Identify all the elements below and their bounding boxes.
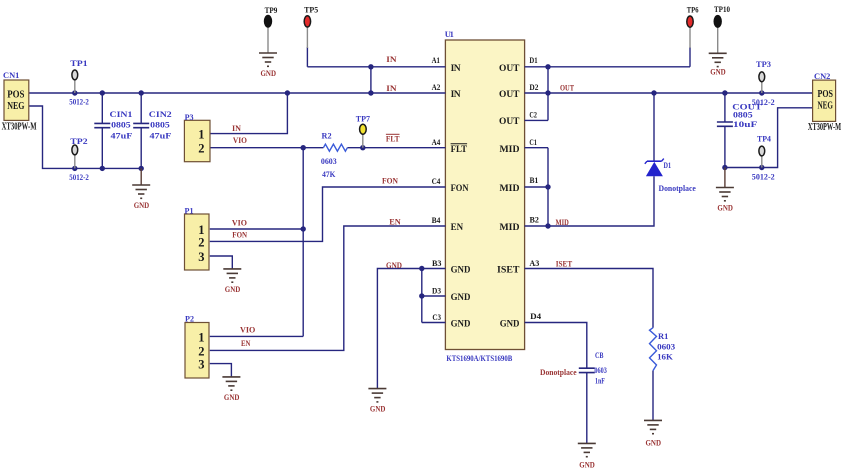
- wire COUT bottom leg: [724, 126, 726, 167]
- wire U1 pin C1 stub: [525, 147, 548, 149]
- node junction VIO at R2: [301, 145, 306, 150]
- svg-text:2: 2: [198, 236, 204, 250]
- svg-text:1nF: 1nF: [595, 376, 605, 386]
- svg-text:GND: GND: [451, 293, 471, 303]
- svg-text:GND: GND: [579, 459, 595, 469]
- node junction P3 IN riser: [285, 90, 290, 95]
- svg-text:CIN2: CIN2: [149, 109, 172, 119]
- resistor R1 0603 16K: [650, 328, 676, 371]
- svg-text:B3: B3: [432, 259, 442, 268]
- test point TP1: [69, 58, 89, 107]
- node junction GND bus at D3: [419, 293, 424, 298]
- test point TP5: [304, 5, 318, 49]
- wire R1 bottom to ground: [652, 371, 654, 421]
- svg-text:IN: IN: [386, 54, 397, 64]
- node junction CIN1 bottom: [100, 166, 105, 171]
- svg-text:FON: FON: [232, 229, 248, 239]
- connector P2: [185, 314, 209, 379]
- op-amp U1 main IC body KTS1690A/KTS1690B: [445, 29, 525, 363]
- svg-text:0603: 0603: [594, 365, 606, 375]
- node junction A1 tie top: [368, 64, 373, 69]
- wire VIO net P3 pin2 to R2: [210, 147, 324, 149]
- svg-text:VIO: VIO: [232, 218, 247, 228]
- svg-text:NEG: NEG: [7, 100, 25, 112]
- wire GND net U1 pin B3 to ground: [377, 269, 445, 389]
- wire U1 pin D3 stub: [422, 295, 446, 297]
- wire P1 pin3 to ground: [210, 256, 233, 269]
- wire main IN net CN1 to U1 pin A2: [29, 92, 446, 94]
- svg-text:U1: U1: [445, 29, 454, 39]
- svg-text:GND: GND: [261, 68, 277, 78]
- wire ISET net U1 pin A3 to R1: [525, 269, 653, 328]
- svg-text:0603: 0603: [321, 156, 337, 166]
- wire MID net U1 pin B2 to diode branch: [525, 176, 654, 226]
- svg-text:TP9: TP9: [265, 5, 278, 15]
- svg-text:EN: EN: [241, 338, 251, 348]
- svg-text:EN: EN: [389, 217, 401, 227]
- node junction TP4 on NEG return: [759, 165, 764, 170]
- wire CIN1 top leg: [101, 93, 103, 123]
- svg-text:P1: P1: [185, 205, 194, 215]
- svg-text:C2: C2: [529, 111, 537, 120]
- wire CN2 NEG return: [725, 108, 813, 168]
- node junction MID bus at B1: [545, 184, 550, 189]
- svg-text:GND: GND: [717, 203, 733, 213]
- svg-text:1: 1: [198, 330, 204, 344]
- svg-text:MID: MID: [500, 145, 520, 155]
- wire U1 pin B1 stub: [525, 186, 548, 188]
- svg-text:TP3: TP3: [756, 59, 771, 69]
- svg-text:C3: C3: [432, 313, 441, 322]
- svg-text:EN: EN: [451, 223, 464, 233]
- ground at P2 pin3: [222, 377, 240, 402]
- wire CB bottom to ground: [586, 373, 588, 444]
- svg-text:TP6: TP6: [687, 4, 699, 14]
- svg-text:XT30PW-M: XT30PW-M: [2, 122, 37, 133]
- node junction CIN1 top: [100, 90, 105, 95]
- svg-text:TP1: TP1: [70, 58, 87, 68]
- svg-text:OUT: OUT: [499, 117, 520, 127]
- test point TP9 with ground: [264, 5, 277, 53]
- wire MID bus right of U1 pins C1 B1 B2: [547, 148, 549, 226]
- svg-text:TP2: TP2: [70, 136, 87, 146]
- svg-text:3: 3: [198, 250, 204, 264]
- test point TP2: [69, 136, 89, 182]
- node junction MID bus at B2: [545, 223, 550, 228]
- wire P3 pin1 IN riser: [210, 93, 288, 134]
- wire P2 pin3 to ground: [210, 364, 232, 377]
- connector CN2 XT30PW-M: [808, 71, 842, 133]
- wire OUT net U1 pin D2 to CN2 POS: [525, 92, 813, 94]
- svg-text:A1: A1: [432, 56, 440, 65]
- svg-text:OUT: OUT: [499, 90, 520, 100]
- svg-text:GND: GND: [451, 319, 471, 329]
- svg-text:MID: MID: [500, 223, 520, 233]
- svg-text:47uF: 47uF: [111, 130, 133, 140]
- svg-text:47K: 47K: [322, 169, 336, 179]
- svg-text:FON: FON: [451, 184, 469, 194]
- node junction OUT bus at D2: [545, 90, 550, 95]
- ground at R1: [644, 420, 662, 447]
- ground at CB: [578, 443, 596, 469]
- resistor R2 0603 47K: [321, 130, 348, 179]
- svg-text:C1: C1: [529, 138, 537, 147]
- wire CIN2 top leg: [140, 93, 142, 123]
- svg-text:TP4: TP4: [757, 133, 772, 143]
- svg-text:FLT: FLT: [451, 145, 468, 155]
- connector P3: [184, 112, 210, 162]
- svg-text:P3: P3: [185, 112, 194, 122]
- ground at P1 pin3: [223, 269, 241, 294]
- svg-text:C4: C4: [432, 177, 441, 186]
- svg-text:5012-2: 5012-2: [752, 172, 775, 182]
- svg-text:FON: FON: [382, 176, 399, 186]
- svg-text:CN2: CN2: [814, 71, 830, 81]
- connector CN1 XT30PW-M: [2, 70, 37, 133]
- svg-text:R1: R1: [658, 331, 668, 341]
- wire CIN2 bottom leg: [140, 128, 142, 169]
- wire TP6 riser: [689, 47, 691, 67]
- wire diode cathode up to OUT net: [653, 93, 655, 161]
- wire TP5 riser: [306, 47, 308, 67]
- capacitor CB 0603 1nF Donotplace: [540, 350, 607, 386]
- wire GND bus left of U1 pins B3 D3 C3: [421, 269, 423, 323]
- svg-text:NEG: NEG: [818, 100, 834, 112]
- connector P1: [185, 205, 210, 270]
- wire A1 IN line from TP5 to U1 pin A1: [307, 66, 445, 68]
- svg-text:R2: R2: [322, 130, 332, 140]
- test point TP6: [687, 4, 699, 48]
- svg-text:CIN1: CIN1: [110, 109, 133, 119]
- svg-text:GND: GND: [134, 200, 150, 210]
- svg-text:B4: B4: [432, 216, 441, 225]
- svg-text:ISET: ISET: [497, 265, 520, 275]
- svg-text:GND: GND: [500, 319, 520, 329]
- node junction TP1 on IN line: [72, 90, 77, 95]
- svg-text:OUT: OUT: [499, 64, 520, 74]
- svg-text:VIO: VIO: [233, 135, 247, 145]
- test point TP10 with ground: [714, 4, 730, 53]
- wire VIO branch to P1 pin1: [210, 228, 303, 230]
- svg-text:B2: B2: [530, 216, 539, 225]
- node junction TP7 on FLT: [360, 145, 365, 150]
- svg-text:2: 2: [198, 141, 204, 155]
- svg-text:16K: 16K: [657, 351, 673, 361]
- svg-text:A3: A3: [529, 259, 539, 268]
- svg-text:2: 2: [198, 344, 204, 358]
- wire EN net P2 pin2 to U1 pin B4: [210, 226, 446, 350]
- svg-text:OUT: OUT: [560, 83, 574, 93]
- svg-text:0805: 0805: [150, 120, 170, 130]
- node junction COUT bottom: [722, 165, 727, 170]
- svg-text:IN: IN: [232, 123, 242, 133]
- capacitor CIN2 0805 47uF: [133, 109, 172, 140]
- svg-text:KTS1690A/KTS1690B: KTS1690A/KTS1690B: [446, 353, 512, 363]
- test point TP3: [752, 59, 775, 107]
- svg-text:FLT: FLT: [386, 134, 400, 144]
- wire CN1 NEG down to ground bus: [29, 106, 141, 168]
- svg-text:VIO: VIO: [240, 325, 256, 335]
- wire FON net P1 pin2 to U1 pin C4: [210, 187, 446, 241]
- svg-text:D1: D1: [664, 160, 672, 170]
- svg-text:P2: P2: [185, 314, 194, 324]
- svg-text:5012-2: 5012-2: [69, 97, 89, 107]
- svg-text:GND: GND: [451, 265, 471, 275]
- svg-text:POS: POS: [7, 89, 24, 101]
- svg-text:D2: D2: [529, 83, 538, 92]
- svg-text:CB: CB: [595, 350, 604, 360]
- svg-text:3: 3: [198, 358, 204, 372]
- wire tie between A1 and A2 lines: [370, 67, 372, 93]
- svg-text:D4: D4: [530, 312, 541, 321]
- svg-text:GND: GND: [710, 66, 726, 76]
- svg-text:IN: IN: [386, 83, 397, 93]
- wire CIN1 bottom leg: [101, 128, 103, 168]
- ground at B3 GND net: [368, 389, 386, 414]
- svg-text:Donotplace: Donotplace: [540, 367, 577, 377]
- svg-text:0603: 0603: [657, 341, 675, 351]
- svg-text:A2: A2: [432, 83, 441, 92]
- capacitor COUT 0805 10uF: [717, 102, 762, 129]
- node junction COUT top: [722, 90, 727, 95]
- svg-text:47uF: 47uF: [150, 130, 172, 140]
- svg-text:5012-2: 5012-2: [752, 97, 775, 107]
- node junction GND bus at B3: [419, 266, 424, 271]
- ground at TP9: [259, 53, 277, 78]
- svg-text:D1: D1: [529, 56, 537, 65]
- test point TP4: [752, 133, 775, 181]
- svg-text:MID: MID: [500, 184, 520, 194]
- test point TP7: [356, 113, 371, 147]
- wire OUT bus right of U1 pins D1 D2 C2: [547, 67, 549, 121]
- svg-text:GND: GND: [370, 404, 386, 414]
- capacitor CIN1 0805 47uF: [94, 109, 132, 140]
- svg-text:GND: GND: [646, 437, 662, 447]
- wire U1 pin D4 GND to CB: [525, 323, 587, 369]
- svg-text:1: 1: [198, 127, 204, 141]
- wire COUT top leg: [724, 93, 726, 122]
- svg-text:10uF: 10uF: [733, 119, 757, 129]
- node junction diode at OUT line: [651, 90, 656, 95]
- svg-text:0805: 0805: [111, 120, 131, 130]
- wire VIO vertical bus: [302, 148, 304, 337]
- svg-text:ISET: ISET: [556, 258, 573, 268]
- svg-text:POS: POS: [818, 88, 834, 100]
- svg-text:GND: GND: [224, 392, 240, 402]
- svg-text:TP10: TP10: [714, 4, 730, 14]
- ground at COUT output bus: [716, 168, 734, 213]
- node junction VIO at P1 branch: [301, 226, 306, 231]
- node label FLT with overline: [386, 134, 400, 144]
- svg-text:CN1: CN1: [3, 70, 19, 80]
- svg-text:TP7: TP7: [356, 113, 371, 123]
- wire U1 pin D1 OUT to TP6: [525, 66, 690, 68]
- diode D1 zener Donotplace: [645, 159, 696, 194]
- svg-text:GND: GND: [225, 284, 241, 294]
- ground at TP10: [709, 53, 727, 76]
- svg-text:IN: IN: [451, 64, 461, 74]
- svg-text:XT30PW-M: XT30PW-M: [808, 122, 842, 133]
- node junction TP3 on OUT line: [759, 90, 764, 95]
- node junction CIN2 bottom: [139, 166, 144, 171]
- node junction TP2 on ground bus: [72, 166, 77, 171]
- wire U1 pin C2 stub: [525, 119, 548, 121]
- svg-text:Donotplace: Donotplace: [659, 183, 696, 193]
- node junction CIN2 top: [139, 90, 144, 95]
- node junction A2 tie bottom: [368, 90, 373, 95]
- ground at CIN2 input bus: [132, 168, 150, 210]
- svg-text:5012-2: 5012-2: [69, 172, 89, 182]
- svg-text:TP5: TP5: [304, 5, 318, 15]
- svg-text:A4: A4: [432, 138, 441, 147]
- svg-text:GND: GND: [386, 260, 402, 270]
- wire VIO branch to P2 pin1: [210, 335, 303, 337]
- U1 pin name FLT A4 with overline: [451, 144, 468, 155]
- wire FLT net R2 to U1 pin A4: [347, 147, 445, 149]
- svg-text:MID: MID: [556, 217, 569, 227]
- node junction OUT bus at D1: [545, 64, 550, 69]
- svg-text:IN: IN: [451, 90, 461, 100]
- svg-text:D3: D3: [432, 286, 441, 295]
- wire U1 pin C3 stub: [422, 322, 446, 324]
- svg-text:B1: B1: [530, 176, 539, 185]
